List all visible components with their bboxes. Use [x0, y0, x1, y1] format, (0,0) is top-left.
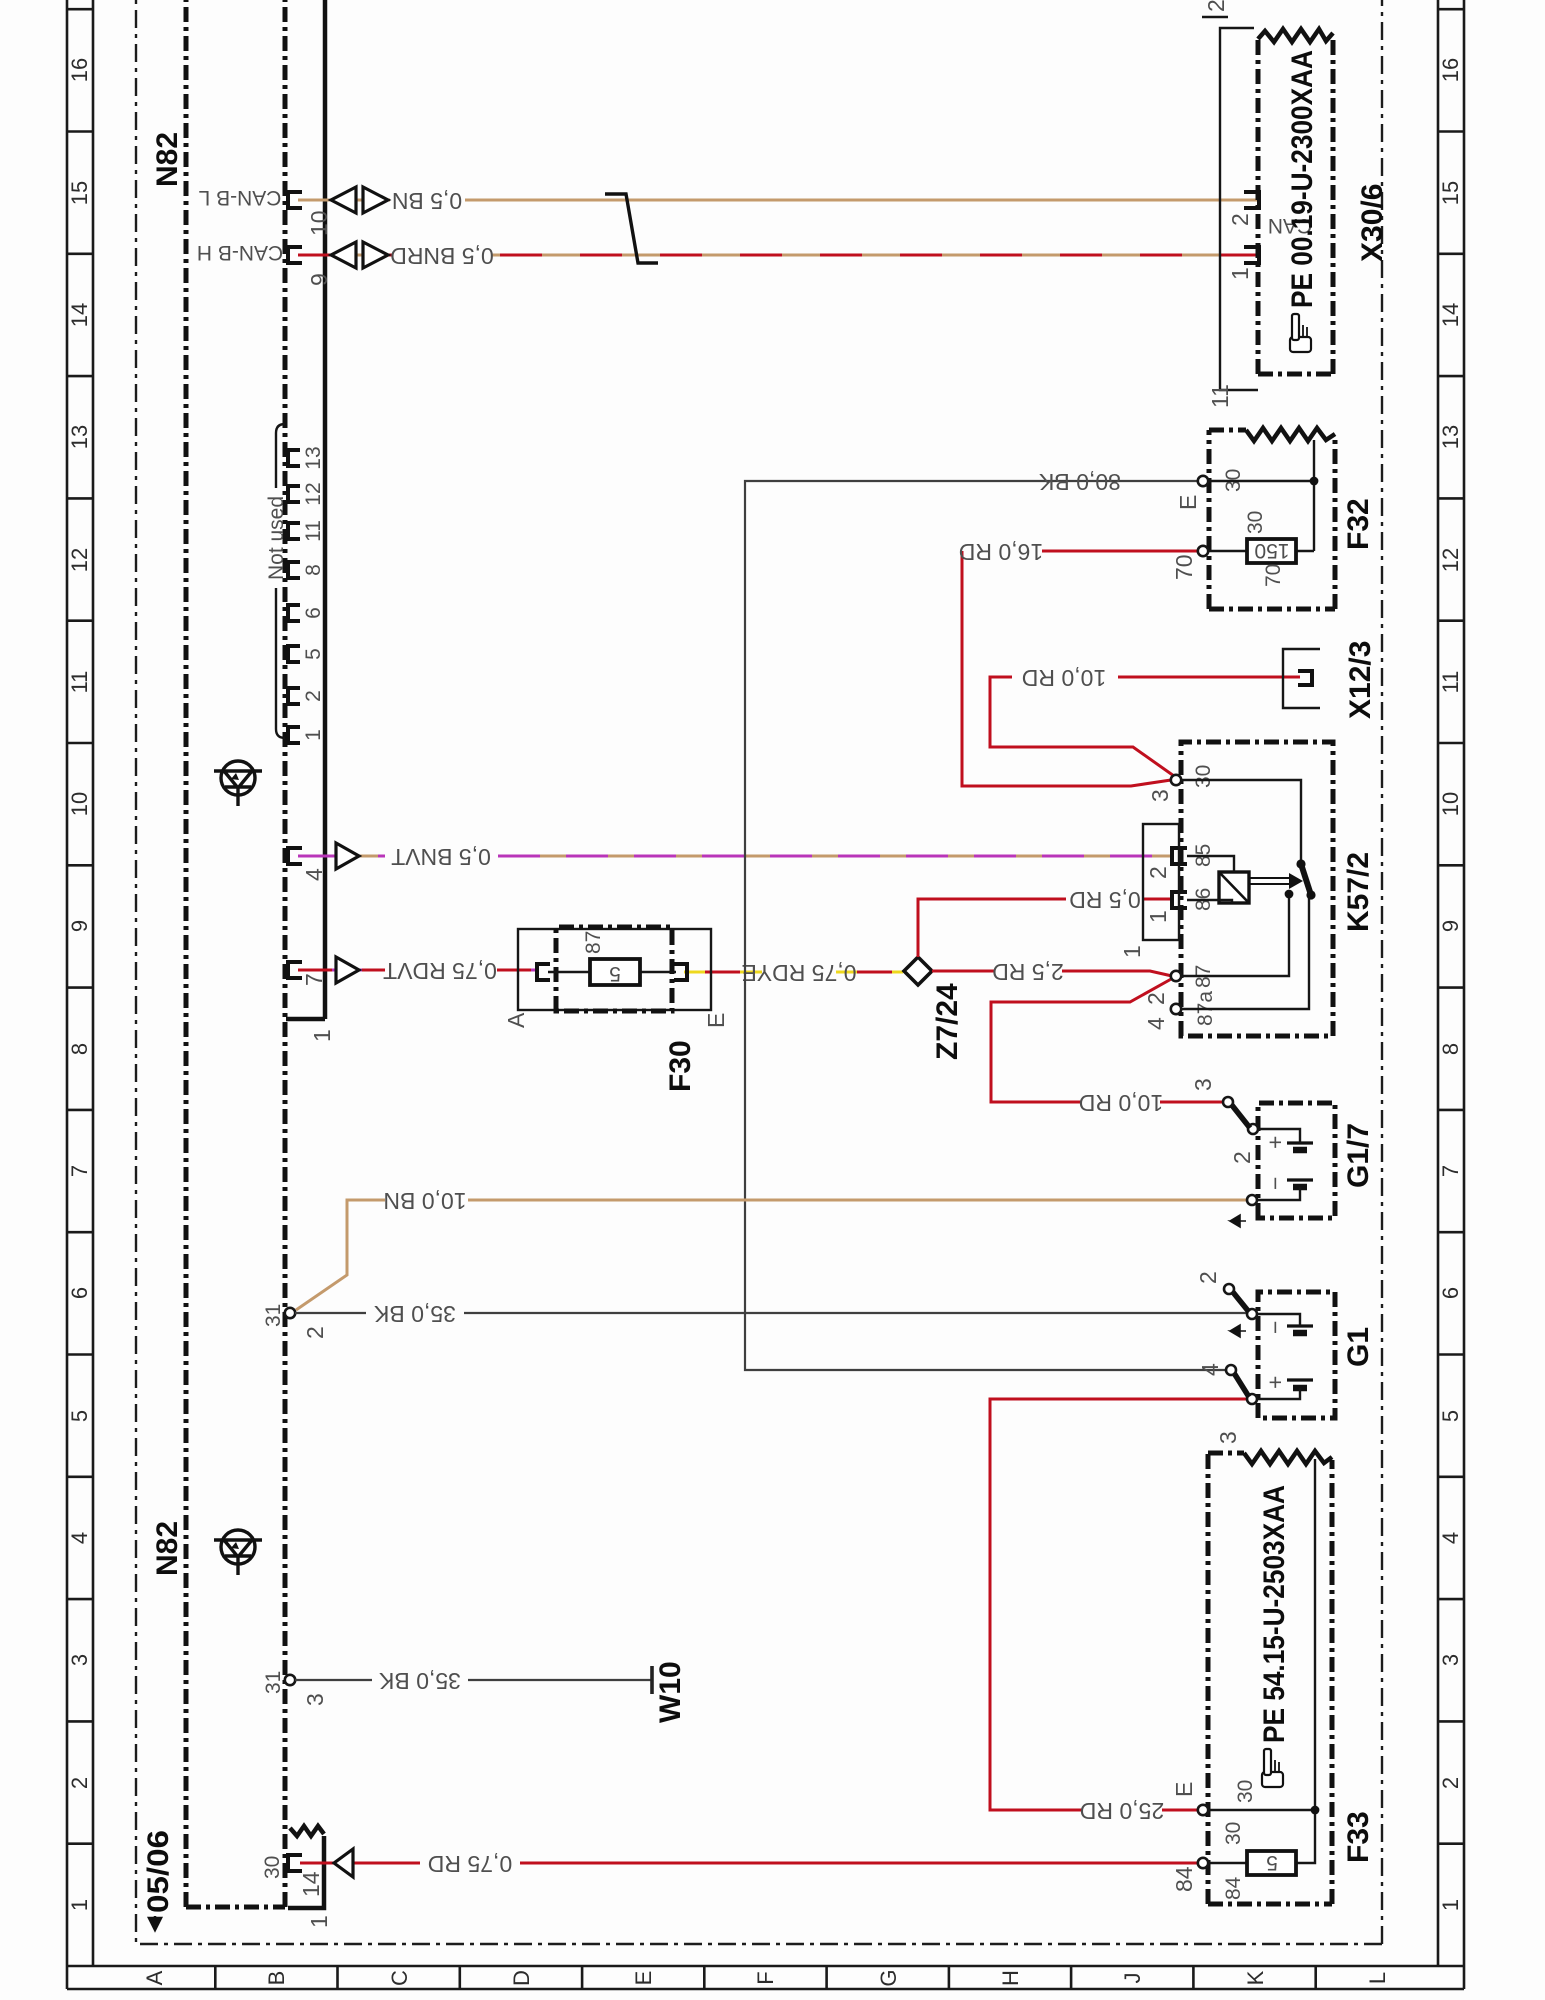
svg-text:X12/3: X12/3: [1344, 641, 1377, 719]
svg-text:N82: N82: [151, 132, 184, 187]
K57/2 pin 85 bracket: [1172, 848, 1187, 864]
svg-text:4: 4: [67, 1532, 92, 1544]
svg-text:10,0 RD: 10,0 RD: [1022, 665, 1106, 691]
wire 80,0 BK (G1 contact 4 to F32 pin 30): [745, 481, 1227, 1370]
svg-text:3: 3: [1215, 1431, 1241, 1444]
svg-text:F30: F30: [664, 1040, 697, 1092]
N82 pin 7 bracket: [288, 962, 302, 978]
X12/3 pin bracket: [1298, 671, 1312, 685]
G1 battery cells: [1287, 1326, 1313, 1388]
F33 internal circuit: [1208, 1459, 1315, 1863]
wire 25,0 RD (G1 pin 3 to F33 pin 30): [990, 1399, 1247, 1810]
svg-text:30: 30: [1192, 765, 1215, 788]
svg-text:0,5 BN: 0,5 BN: [392, 188, 462, 214]
F33 fuse element 5: [1247, 1851, 1296, 1875]
svg-text:2: 2: [302, 1326, 328, 1339]
wire 35,0 BK (N82 pin 31 left to ground W10): [295, 1679, 651, 1681]
svg-text:−: −: [1262, 1321, 1288, 1334]
svg-text:25,0 RD: 25,0 RD: [1080, 1798, 1164, 1824]
G1/7 pin 1: [1247, 1195, 1257, 1205]
G1 switch lever to contact 4: [1226, 1365, 1249, 1397]
svg-text:7: 7: [1438, 1165, 1463, 1177]
K57/2 pin 30: [1171, 775, 1181, 785]
svg-text:1: 1: [302, 729, 325, 741]
svg-text:84: 84: [1222, 1876, 1245, 1900]
svg-text:16: 16: [67, 58, 92, 82]
G1 pin 1: [1247, 1309, 1257, 1319]
svg-text:6: 6: [302, 607, 325, 619]
K57/2 pin 86 bracket: [1172, 892, 1187, 908]
svg-text:−: −: [1262, 1177, 1288, 1190]
svg-text:0,75 RD: 0,75 RD: [428, 1851, 512, 1877]
svg-text:2: 2: [1143, 992, 1169, 1005]
svg-text:15: 15: [1438, 181, 1463, 205]
K57/2 pin 87: [1171, 971, 1181, 981]
N82 not-used pins bracket: [276, 424, 285, 738]
svg-text:H: H: [998, 1970, 1023, 1986]
K57/2 internal: pin 87 line: [1181, 894, 1289, 976]
G1 switch lever to contact 2: [1224, 1284, 1249, 1312]
svg-text:80,0 BK: 80,0 BK: [1038, 469, 1120, 495]
svg-text:2: 2: [1229, 1151, 1255, 1164]
actuator link with arrow: [1249, 873, 1303, 889]
not-used pin 5: [288, 646, 300, 662]
G1/7 battery cells: [1287, 1143, 1313, 1187]
not-used pin 8: [288, 562, 300, 578]
svg-text:K57/2: K57/2: [1342, 852, 1375, 932]
svg-text:7: 7: [301, 973, 327, 986]
svg-text:5: 5: [609, 962, 621, 985]
wire 10,0 BN (G1/7 pin 1 to N82 pin 31 right): [296, 1200, 1247, 1310]
control unit N82 (dash-dot box): [186, 0, 285, 1907]
not-used pin 2: [288, 688, 300, 704]
svg-text:11: 11: [67, 671, 92, 694]
svg-text:E: E: [703, 1013, 729, 1028]
not-used pin 12: [288, 486, 300, 502]
svg-text:1: 1: [1145, 910, 1171, 923]
X30/6 pin 1 bracket: [1244, 247, 1259, 263]
svg-text:5: 5: [1438, 1410, 1463, 1422]
connector X12/3: [1283, 649, 1320, 708]
svg-text:05/06: 05/06: [142, 1830, 175, 1913]
svg-text:E: E: [631, 1971, 656, 1986]
wire 0,5 BNRD (CAN-B H, N82 pin 9 to X30/6 pin 1): [298, 254, 1258, 257]
wire 10,0 RD (G1/7 contact 3 to K57/2 pin 87): [991, 978, 1224, 1102]
svg-text:1: 1: [1438, 1899, 1463, 1911]
svg-text:+: +: [1262, 1376, 1288, 1389]
svg-text:2: 2: [1145, 866, 1171, 879]
svg-text:G1: G1: [1342, 1327, 1375, 1367]
wire 35,0 BK (N82 pin 31 right to G1 pin 1): [295, 1312, 1247, 1314]
svg-text:8: 8: [67, 1043, 92, 1055]
svg-text:A: A: [503, 1012, 529, 1028]
svg-text:70: 70: [1171, 554, 1197, 580]
wire 2,5 RD (Z7/24 to K57/2 pin 87): [932, 971, 1172, 976]
svg-text:11: 11: [302, 520, 325, 542]
wire 0,75 RDYE (F30 pin E to Z7/24): [684, 971, 903, 974]
F32 junction: [1310, 477, 1319, 486]
svg-text:30: 30: [1244, 511, 1267, 534]
svg-text:30: 30: [261, 1856, 284, 1879]
CAN arrows at pin 9: [331, 242, 388, 268]
svg-text:4: 4: [1143, 1017, 1169, 1030]
svg-text:K: K: [1243, 1970, 1268, 1985]
svg-text:D: D: [509, 1970, 534, 1986]
direction arrow (G1/7 pin 1): [1230, 1215, 1246, 1227]
svg-text:9: 9: [67, 920, 92, 932]
svg-text:6: 6: [1438, 1287, 1463, 1299]
svg-text:0,75 RDVT: 0,75 RDVT: [383, 958, 497, 984]
not-used pin 11: [288, 523, 300, 539]
svg-text:A: A: [142, 1970, 167, 1985]
svg-text:70: 70: [1262, 564, 1285, 587]
svg-text:87: 87: [582, 931, 605, 954]
svg-text:16,0 RD: 16,0 RD: [959, 539, 1043, 565]
N82 pin 31 (right): [285, 1308, 295, 1318]
svg-text:2: 2: [302, 690, 325, 702]
N82 pin 30 bracket: [288, 1855, 302, 1871]
svg-text:12: 12: [1438, 548, 1463, 572]
wire 0,75 RDVT (N82 pin 7 to F30 pin A): [298, 969, 538, 972]
arrow at N82 pin 30: [334, 1849, 353, 1877]
svg-text:15: 15: [67, 181, 92, 205]
N82 connector 1 bar (right segment): [286, 0, 325, 1019]
svg-text:5: 5: [1266, 1851, 1278, 1874]
not-used pin 13: [288, 450, 300, 466]
svg-text:10,0 BN: 10,0 BN: [383, 1188, 466, 1214]
wire 10,0 RD (X12/3 to K57/2 pin 30): [990, 677, 1300, 776]
svg-text:30: 30: [1222, 1822, 1245, 1845]
coil connections: [1187, 856, 1234, 903]
contact dot 87: [1285, 890, 1294, 899]
svg-text:12: 12: [67, 548, 92, 572]
svg-text:13: 13: [1438, 425, 1463, 449]
svg-text:G: G: [876, 1969, 901, 1986]
ground W10: [650, 1666, 654, 1694]
relay coil: [1219, 872, 1249, 903]
svg-text:10,0 RD: 10,0 RD: [1079, 1090, 1163, 1116]
svg-text:31: 31: [262, 1304, 285, 1327]
svg-text:6: 6: [67, 1287, 92, 1299]
svg-text:2: 2: [1195, 1271, 1221, 1284]
wire 0,75 RD (N82 pin 30 to F33 pin 84): [300, 1862, 1198, 1865]
svg-text:0,5 BNRD: 0,5 BNRD: [390, 243, 494, 269]
svg-text:30: 30: [1234, 1780, 1257, 1803]
svg-text:1: 1: [1119, 945, 1145, 958]
connector X30/6 bar: [1220, 28, 1258, 390]
battery G1/7 (dash-dot box): [1258, 1103, 1335, 1218]
svg-text:F33: F33: [1342, 1811, 1375, 1863]
svg-text:4: 4: [1197, 1363, 1223, 1376]
svg-text:8: 8: [1438, 1043, 1463, 1055]
svg-text:9: 9: [1438, 920, 1463, 932]
F33 pin 30: [1198, 1805, 1208, 1815]
svg-text:3: 3: [67, 1654, 92, 1666]
svg-text:150: 150: [1254, 539, 1289, 562]
torn zigzag on connector 1 left segment: [290, 1826, 324, 1836]
vehicle boundary (dash-dot): [136, 0, 1382, 1944]
transistor symbol (right, inside N82): [214, 761, 262, 806]
svg-text:N82: N82: [151, 1521, 184, 1576]
svg-text:10: 10: [1438, 792, 1463, 816]
svg-text:35,0 BK: 35,0 BK: [373, 1301, 455, 1327]
svg-text:7: 7: [67, 1165, 92, 1177]
direction arrow (G1 pin 1): [1230, 1325, 1246, 1337]
svg-text:0,5 RD: 0,5 RD: [1069, 887, 1141, 913]
fuse F30 connector frame: [518, 929, 711, 1010]
F30 pin A bracket: [537, 964, 550, 980]
svg-text:E: E: [1171, 1782, 1197, 1797]
svg-text:Not used: Not used: [265, 496, 288, 580]
svg-text:F32: F32: [1342, 498, 1375, 550]
F33 junction: [1311, 1806, 1320, 1815]
G1 pin 3: [1247, 1394, 1257, 1404]
svg-text:3: 3: [1190, 1078, 1216, 1091]
connector housing around pins 85/86: [1143, 824, 1179, 940]
wire 16,0 RD (F32 pin 70 to K57/2 pin 30): [962, 551, 1199, 786]
svg-text:1: 1: [306, 1915, 332, 1928]
fuse F33 (dash-dot box, torn right): [1208, 1451, 1332, 1904]
svg-text:2: 2: [1438, 1777, 1463, 1789]
G1/7 internal connections: [1257, 1129, 1300, 1200]
svg-text:13: 13: [67, 425, 92, 449]
N82 pin 31 (left): [285, 1675, 295, 1685]
arrow at pin 7: [336, 957, 359, 983]
svg-text:1: 1: [309, 1029, 335, 1042]
G1/7 switch lever to contact 3: [1223, 1097, 1250, 1128]
svg-text:84: 84: [1171, 1866, 1197, 1892]
pointing hand (F33): [1262, 1749, 1283, 1787]
svg-text:14: 14: [67, 303, 92, 327]
F30 fuse element 5: [590, 959, 640, 985]
svg-text:11: 11: [1207, 384, 1233, 408]
svg-text:10: 10: [67, 792, 92, 816]
svg-text:2,5 RD: 2,5 RD: [992, 959, 1064, 985]
X30/6 pin 2 bracket: [1244, 192, 1259, 208]
component X30/6 CAN connector (dash-dot box, torn right): [1258, 29, 1333, 374]
svg-text:5: 5: [67, 1410, 92, 1422]
F30 internal circuit: [548, 971, 676, 973]
svg-text:2: 2: [67, 1777, 92, 1789]
arrow at pin 4: [336, 843, 359, 869]
svg-text:14: 14: [298, 1871, 324, 1897]
label 12 (cut at edge): [1202, 0, 1229, 17]
svg-text:3: 3: [302, 1693, 328, 1706]
G1/7 pin 2: [1248, 1124, 1258, 1134]
svg-text:16: 16: [1438, 58, 1463, 82]
svg-text:8: 8: [302, 564, 325, 576]
K57/2 internal: pin30 to switch pivot: [1181, 780, 1301, 864]
relay K57/2 (dash-dot box): [1181, 742, 1333, 1036]
svg-text:35,0 BK: 35,0 BK: [378, 1668, 460, 1694]
svg-text:X30/6: X30/6: [1356, 184, 1389, 262]
svg-text:5: 5: [302, 648, 325, 660]
svg-text:PE 00.19-U-2300XAA: PE 00.19-U-2300XAA: [1286, 50, 1319, 308]
F32 fuse element 150: [1247, 539, 1296, 563]
fuse F30 (dash-dot box): [556, 927, 672, 1011]
battery G1 (dash-dot box): [1258, 1292, 1335, 1418]
transistor symbol (left, inside N82): [214, 1530, 262, 1575]
G1 internal connections: [1257, 1314, 1300, 1399]
svg-text:F: F: [753, 1971, 778, 1984]
svg-text:0,5 BNVT: 0,5 BNVT: [391, 844, 491, 870]
svg-text:2: 2: [1203, 0, 1229, 12]
pointing hand (X30/6): [1290, 314, 1311, 352]
not-used pin 6: [288, 605, 300, 621]
svg-text:CAN-B L: CAN-B L: [199, 186, 282, 209]
svg-text:3: 3: [1147, 789, 1173, 802]
svg-text:1: 1: [67, 1899, 92, 1911]
K57/2 pin 87a: [1171, 1004, 1181, 1014]
svg-text:W10: W10: [654, 1661, 687, 1723]
svg-text:C: C: [387, 1970, 412, 1986]
N82 pin 10 bracket (CAN-B L): [288, 192, 302, 208]
svg-text:CAN-B H: CAN-B H: [197, 241, 283, 264]
not-used pin 1: [288, 727, 300, 743]
F32 pin 30: [1198, 476, 1208, 486]
svg-text:E: E: [1175, 495, 1201, 510]
relay switch lever: [1296, 859, 1315, 899]
svg-text:14: 14: [1438, 303, 1463, 327]
svg-text:0,75 RDYE: 0,75 RDYE: [741, 960, 856, 986]
svg-text:10: 10: [306, 210, 332, 236]
svg-text:31: 31: [262, 1671, 285, 1694]
svg-text:+: +: [1262, 1136, 1288, 1149]
fuse F32 (dash-dot box, torn right): [1209, 428, 1335, 609]
svg-text:12: 12: [302, 482, 325, 505]
svg-text:G1/7: G1/7: [1342, 1123, 1375, 1188]
svg-text:1: 1: [1227, 267, 1253, 280]
N82 pin 9 bracket (CAN-B H): [288, 247, 302, 263]
svg-text:4: 4: [1438, 1532, 1463, 1544]
twisted pair symbol on CAN wires: [605, 194, 658, 263]
svg-text:9: 9: [306, 273, 332, 286]
wire 0,5 RD (Z7/24 to K57/2 pin 86): [918, 899, 1171, 957]
svg-text:13: 13: [302, 446, 325, 469]
F32 pin 70: [1198, 546, 1208, 556]
K57/2 internal: pin 87a line: [1181, 897, 1309, 1009]
CAN arrows at pin 10: [331, 187, 388, 213]
svg-text:J: J: [1120, 1973, 1145, 1984]
F33 pin 84: [1198, 1858, 1208, 1868]
splice Z7/24: [904, 957, 932, 985]
svg-text:3: 3: [1438, 1654, 1463, 1666]
wire 0,5 BNVT (N82 pin 4 to K57/2 pin 85): [298, 855, 1171, 858]
N82 pin 4 bracket: [288, 848, 302, 864]
svg-text:2: 2: [1227, 213, 1253, 226]
svg-text:11: 11: [1438, 671, 1463, 694]
wire 0,5 BN (CAN-B L, N82 pin 10 to X30/6 pin 2): [298, 199, 1258, 202]
svg-text:L: L: [1365, 1972, 1390, 1984]
svg-text:B: B: [264, 1971, 289, 1986]
F30 pin E bracket: [674, 964, 687, 980]
N82 connector 1 bar (left segment, torn): [288, 1836, 324, 1908]
F32 internal circuit: [1208, 440, 1314, 551]
svg-text:PE 54.15-U-2503XAA: PE 54.15-U-2503XAA: [1258, 1485, 1291, 1743]
svg-text:4: 4: [301, 868, 327, 881]
svg-text:Z7/24: Z7/24: [931, 983, 964, 1060]
sheet continuation arrow 05/06: [142, 1830, 175, 1930]
